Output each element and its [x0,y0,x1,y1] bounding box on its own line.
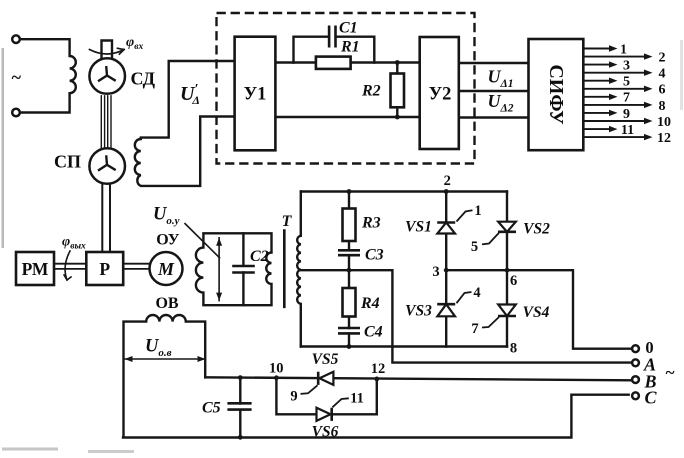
svg-text:VS6: VS6 [312,423,339,440]
svg-text:R3: R3 [361,215,381,232]
svg-text:C4: C4 [364,324,383,341]
svg-text:~: ~ [666,363,675,382]
svg-text:4: 4 [659,67,666,82]
svg-text:7: 7 [471,321,478,337]
svg-text:R1: R1 [340,39,360,56]
svg-text:10: 10 [657,115,671,130]
svg-text:СД: СД [131,69,156,89]
svg-text:VS5: VS5 [312,351,339,368]
svg-text:U′Δ: U′Δ [180,82,200,107]
svg-text:9: 9 [290,389,297,405]
svg-text:5: 5 [471,239,478,255]
svg-text:11: 11 [621,123,634,138]
svg-text:11: 11 [350,391,364,407]
svg-text:9: 9 [623,107,630,122]
svg-text:4: 4 [473,285,480,301]
svg-text:М: М [157,259,175,279]
svg-text:C2: C2 [250,248,269,265]
svg-text:У2: У2 [429,85,452,105]
svg-text:РМ: РМ [22,259,49,279]
svg-text:12: 12 [371,361,386,377]
svg-text:7: 7 [623,91,630,106]
svg-text:1: 1 [474,203,481,219]
svg-text:~: ~ [12,67,22,87]
svg-text:Р: Р [99,259,110,279]
svg-text:T: T [282,213,293,230]
svg-text:C3: C3 [365,247,384,264]
svg-text:СИФУ: СИФУ [545,64,567,125]
svg-text:ОВ: ОВ [155,295,178,312]
svg-text:R4: R4 [360,295,380,312]
svg-text:СП: СП [54,152,81,172]
svg-text:VS4: VS4 [523,304,550,321]
svg-text:6: 6 [659,83,666,98]
svg-text:3: 3 [623,59,630,74]
svg-text:6: 6 [510,273,517,289]
svg-text:VS3: VS3 [405,303,432,320]
svg-text:C: C [644,387,657,407]
svg-text:2: 2 [444,173,451,189]
svg-text:1: 1 [620,42,627,57]
svg-text:C1: C1 [339,20,358,37]
svg-text:12: 12 [657,131,671,146]
svg-text:8: 8 [510,340,517,356]
svg-text:VS2: VS2 [523,221,550,238]
svg-text:8: 8 [659,99,666,114]
svg-text:ОУ: ОУ [156,232,180,249]
svg-text:VS1: VS1 [405,219,432,236]
svg-text:2: 2 [659,51,666,66]
svg-text:C5: C5 [202,399,221,416]
svg-text:10: 10 [269,360,284,376]
svg-text:5: 5 [623,75,630,90]
svg-text:R2: R2 [361,83,381,100]
svg-text:У1: У1 [244,85,267,105]
svg-text:3: 3 [432,264,439,280]
